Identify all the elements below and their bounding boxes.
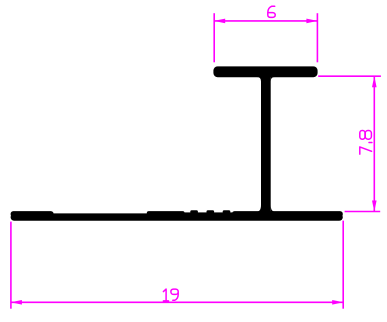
fillet web-bar right [271,205,275,212]
fillet web-flange right [271,77,275,82]
dim78 ext top [318,75,381,77]
arrow dim19 left [11,300,22,305]
tooth 1 [190,210,198,215]
profile flange top [213,66,317,77]
arrow dim6 left [214,19,225,24]
fillet web-flange left [257,77,261,82]
dim19 ext left [10,222,12,309]
arrow dim6 right [306,19,317,24]
dim78 line [373,76,375,211]
dim6 line [214,20,317,22]
arrow dim78 bottom [372,201,377,212]
bottom bar base [11,213,343,220]
serration base [184,212,232,217]
text 1 of 19 [163,289,168,301]
arrow dim78 top [372,76,377,87]
fillet web-bar left [257,205,261,212]
text 7,8 rotated [360,131,372,155]
dim6 ext right [316,13,318,62]
profile web [261,70,271,215]
bar raised section middle [147,211,185,217]
text 6 [268,6,275,17]
arrow dim19 right [332,300,343,305]
dim6 ext left [213,13,215,62]
bar raised section right [232,211,343,217]
dim19 ext right [342,221,344,309]
tooth 3 [223,210,231,215]
tooth 2 [207,210,215,215]
bar raised section left [11,211,54,217]
dim19 line [11,301,343,303]
text 9 of 19 [171,289,178,300]
dim78 ext bottom [345,211,381,213]
